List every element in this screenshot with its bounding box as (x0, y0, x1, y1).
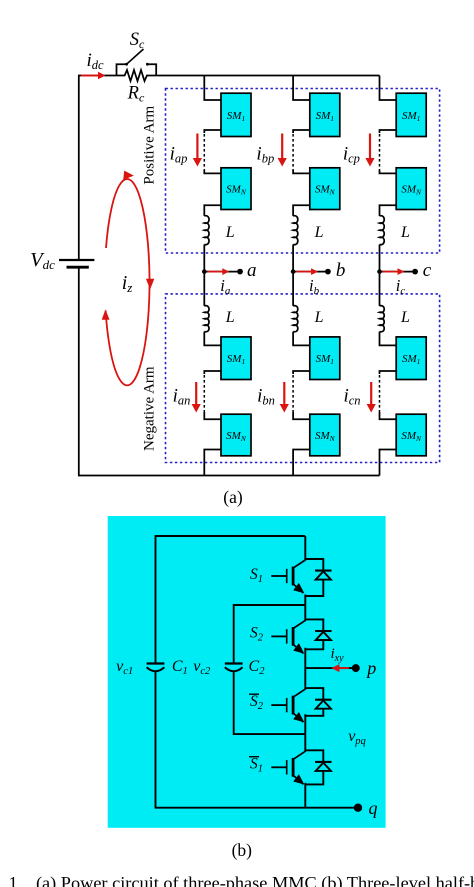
wire: dashed (omitted SMs) positive arm phase c (379, 134, 381, 170)
wire: dashed (omitted SMs) negative arm phase a (203, 375, 205, 412)
wire: phase c output (380, 271, 416, 273)
arrowhead i_z left (up) (102, 309, 110, 319)
transistor S2 (IGBT) (271, 689, 305, 722)
current arrow i_xy (331, 664, 349, 672)
inductor L positive arm phase c (380, 216, 385, 245)
svg-text:L: L (400, 224, 410, 241)
submodule SMN negative arm phase b (310, 414, 340, 456)
wire: dashed (omitted SMs) negative arm phase c (379, 375, 381, 412)
wire: phase c positive-arm column (380, 76, 397, 134)
node b junction dot (291, 269, 296, 274)
svg-text:Negative Arm: Negative Arm (142, 366, 158, 451)
terminal c dot (412, 269, 418, 275)
wire: phase a output (204, 271, 240, 273)
svg-text:b: b (336, 260, 346, 281)
wire: dashed (omitted SMs) positive arm phase b (292, 134, 294, 170)
svg-text:p: p (365, 658, 376, 678)
wire: inner loop (C2 branch) (234, 605, 306, 734)
wire: phase a positive-arm column (204, 76, 221, 134)
wire: phase b negative-arm column (293, 272, 310, 374)
svg-text:(a): (a) (223, 487, 243, 507)
wire: output to p (305, 667, 354, 669)
inductor L negative arm phase c (380, 306, 385, 332)
diode of S1 (305, 750, 331, 784)
submodule SMN positive arm phase b (310, 168, 340, 210)
submodule SMN negative arm phase a (221, 414, 251, 456)
terminal b dot (325, 269, 331, 275)
svg-text:a: a (247, 260, 257, 281)
resistor R_c (117, 70, 157, 81)
current arrow i_bp (278, 134, 287, 167)
submodule SMN positive arm phase a (221, 168, 251, 210)
inductor L negative arm phase b (293, 306, 298, 332)
svg-text:Fig. 1. (a) Power circuit of: Fig. 1. (a) Power circuit of three-phase… (0, 873, 474, 887)
wire: IGBT chain (304, 536, 306, 808)
current arrow i_c (383, 268, 405, 275)
transistor S2 (IGBT) (271, 620, 305, 653)
current arrow i_dc (81, 72, 106, 80)
current arrow i_cn (367, 382, 376, 413)
inductor L positive arm phase b (293, 216, 298, 245)
svg-text:L: L (314, 309, 324, 326)
node c junction dot (377, 269, 382, 274)
figure b cyan background (108, 516, 386, 828)
wire: phase b positive-arm column (293, 76, 310, 134)
terminal q (354, 804, 362, 812)
wire: dashed (omitted SMs) positive arm phase a (203, 134, 205, 170)
svg-text:L: L (225, 224, 235, 241)
current arrow i_ap (193, 134, 202, 167)
node a junction dot (202, 269, 207, 274)
submodule SM1 positive arm phase b (310, 93, 340, 136)
terminal a dot (237, 269, 243, 275)
submodule SM1 positive arm phase c (396, 93, 426, 136)
current arrow i_b (296, 268, 318, 275)
svg-text:c: c (423, 260, 432, 281)
diode of S2 (305, 619, 331, 649)
label S2 (250, 625, 264, 644)
inductor L negative arm phase a (204, 306, 209, 332)
label S1 (249, 756, 263, 775)
svg-text:q: q (369, 798, 378, 818)
submodule SM1 negative arm phase b (310, 337, 340, 380)
diode of S2 (305, 688, 331, 716)
positive arm dashed box (166, 89, 440, 254)
wire: outer loop (C1 branch) (156, 536, 355, 808)
arrowhead i_z right (down) (146, 279, 154, 290)
negative arm dashed box (166, 294, 440, 463)
current arrow i_cp (365, 134, 374, 167)
svg-text:(b): (b) (232, 840, 253, 860)
wire: DC-link left/top/bottom bus (79, 76, 380, 476)
label S1 (250, 566, 263, 585)
voltage source V_dc (battery) (59, 260, 94, 267)
inductor L positive arm phase a (204, 216, 209, 245)
submodule SM1 negative arm phase c (396, 337, 426, 380)
current arrow i_a (207, 268, 229, 275)
submodule SM1 positive arm phase a (221, 93, 251, 136)
wire: phase c negative-arm column (380, 272, 397, 374)
submodule SMN negative arm phase c (396, 414, 426, 456)
switch S_c (bypass) (117, 49, 157, 76)
submodule SMN positive arm phase c (396, 168, 426, 210)
svg-text:L: L (225, 309, 235, 326)
svg-text:L: L (400, 309, 410, 326)
label S2 (249, 693, 264, 712)
wire: dashed (omitted SMs) negative arm phase b (292, 375, 294, 412)
terminal p (352, 664, 360, 672)
current arrow i_bn (280, 382, 289, 413)
svg-text:Positive Arm: Positive Arm (142, 105, 158, 184)
capacitor C1 (147, 664, 165, 672)
wire: phase b output (293, 271, 328, 273)
capacitor C2 (225, 664, 243, 672)
submodule SM1 negative arm phase a (221, 337, 251, 380)
wire: phase a negative-arm column (204, 272, 221, 374)
diode of S1 (305, 559, 331, 596)
transistor S1 (IGBT) (271, 751, 305, 784)
circulating current loop i_z (106, 179, 150, 385)
svg-text:L: L (314, 224, 324, 241)
transistor S1 (IGBT) (271, 560, 305, 593)
current arrow i_an (192, 382, 201, 413)
arrowhead i_z top (123, 171, 134, 180)
